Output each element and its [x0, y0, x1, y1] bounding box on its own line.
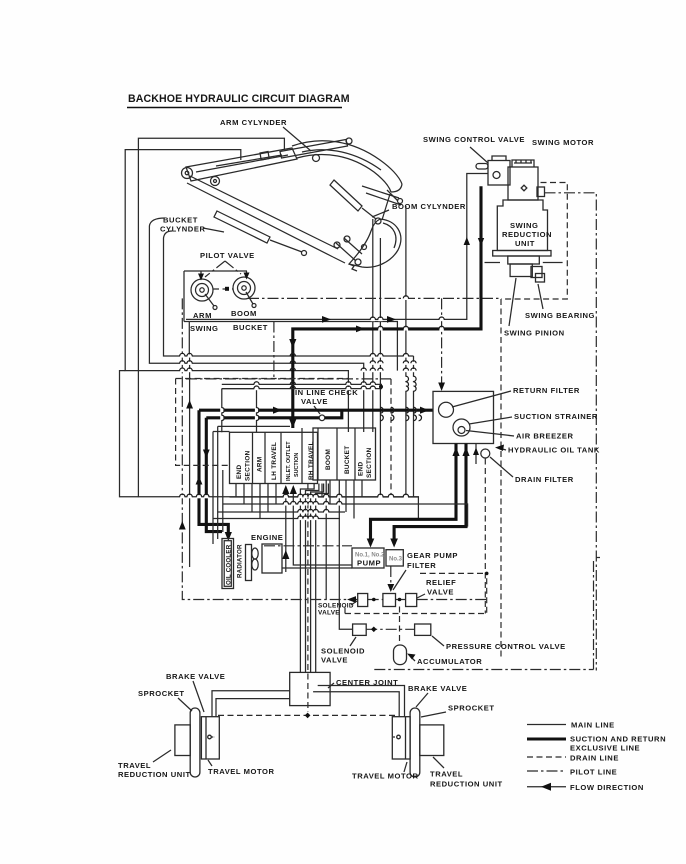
- label PRESSURE CONTROL VALVE: [432, 636, 566, 651]
- wire tank suction thick B: [390, 444, 469, 548]
- svg-text:TRAVEL MOTOR: TRAVEL MOTOR: [352, 772, 419, 781]
- swing reduction unit: [497, 200, 552, 251]
- crossover hops: [180, 296, 445, 520]
- svg-text:SUCTION: SUCTION: [294, 453, 300, 477]
- pump no3: [386, 550, 403, 566]
- svg-text:VALVE: VALVE: [301, 397, 328, 406]
- wire drops to valve top: [222, 389, 257, 433]
- label ARM CYLYNDER: [220, 118, 311, 151]
- oil cooler: [222, 539, 234, 589]
- svg-text:TRAVEL: TRAVEL: [118, 761, 151, 770]
- svg-text:VALVE: VALVE: [321, 656, 348, 665]
- svg-text:SUCTION AND RETURN: SUCTION AND RETURN: [570, 735, 666, 744]
- wire pilot row dashdot: [186, 378, 391, 380]
- wire tank small stub: [473, 444, 479, 465]
- svg-text:SPROCKET: SPROCKET: [138, 689, 185, 698]
- wire row above valve: [222, 388, 382, 390]
- wire vertical right of valve: [406, 206, 414, 497]
- svg-text:OIL COOLER: OIL COOLER: [226, 544, 233, 585]
- legend drain line: [527, 754, 619, 763]
- wire thick return to tank: [199, 407, 433, 414]
- solenoid valve 1: [358, 594, 368, 607]
- wire row2 pilot: [366, 626, 414, 632]
- svg-text:SWING: SWING: [510, 221, 538, 230]
- svg-text:BUCKET: BUCKET: [233, 323, 268, 332]
- svg-text:VALVE: VALVE: [427, 588, 454, 597]
- svg-text:DRAIN FILTER: DRAIN FILTER: [515, 475, 574, 484]
- label DRAIN FILTER: [490, 457, 574, 484]
- label BRAKE VALVE left: [166, 672, 225, 712]
- wire dashed mid box: [176, 379, 348, 466]
- label TRAVEL MOTOR right: [352, 762, 419, 781]
- svg-text:SWING: SWING: [190, 324, 218, 333]
- wire swing frame box: [189, 322, 397, 371]
- label SWING PINION: [504, 278, 565, 338]
- wire center joint to left motor: [212, 691, 290, 717]
- label BUCKET CYLYNDER: [160, 216, 224, 234]
- svg-text:ACCUMULATOR: ACCUMULATOR: [417, 657, 482, 666]
- title: [127, 93, 350, 108]
- label RELIEF VALVE: [417, 578, 456, 598]
- pressure control valve: [415, 624, 431, 635]
- svg-text:FILTER: FILTER: [407, 561, 436, 570]
- svg-text:INLET. OUTLET: INLET. OUTLET: [286, 441, 292, 481]
- svg-text:END: END: [236, 465, 243, 479]
- svg-text:SOLENOID: SOLENOID: [318, 603, 354, 610]
- wire pilot dashdot to swing: [248, 298, 501, 387]
- wire solenoid feeders: [326, 480, 352, 629]
- relief valve square: [406, 594, 417, 607]
- svg-text:BOOM CYLYNDER: BOOM CYLYNDER: [392, 202, 466, 211]
- engine fan: [252, 548, 258, 570]
- svg-text:ARM CYLYNDER: ARM CYLYNDER: [220, 118, 287, 127]
- svg-text:HYDRAULIC OIL TANK: HYDRAULIC OIL TANK: [508, 446, 600, 455]
- wire bucket cylinder line 1: [149, 218, 363, 432]
- wire row D: [222, 383, 382, 385]
- label TRAVEL REDUCTION UNIT right: [430, 757, 503, 789]
- node arrow into tank top: [438, 383, 445, 392]
- svg-text:BOOM: BOOM: [231, 309, 257, 318]
- wire drain dashed box: [345, 572, 489, 614]
- wire left risers: [213, 426, 223, 544]
- swing dashed enclosure: [501, 183, 567, 300]
- wire swing main thick: [293, 186, 481, 428]
- filter square: [383, 594, 396, 607]
- wire mid vertical with arrow: [186, 356, 193, 567]
- label SOLENOID VALVE 2: [321, 637, 365, 665]
- wire swing main thin: [186, 174, 488, 320]
- svg-text:FLOW DIRECTION: FLOW DIRECTION: [570, 783, 644, 792]
- label SPROCKET right: [421, 704, 495, 718]
- travel unit left: [175, 708, 219, 777]
- svg-text:PILOT LINE: PILOT LINE: [570, 768, 617, 777]
- label SPROCKET left: [138, 689, 192, 711]
- radiator: [237, 544, 252, 581]
- wire rows below valve: [213, 497, 468, 527]
- wire pilot left vertical: [179, 298, 358, 599]
- legend flow direction: [527, 783, 644, 792]
- label RETURN FILTER: [452, 386, 580, 407]
- svg-text:SPROCKET: SPROCKET: [448, 704, 495, 713]
- label ACCUMULATOR: [407, 654, 482, 667]
- solenoid valve 2: [353, 624, 367, 635]
- svg-text:SWING CONTROL VALVE: SWING CONTROL VALVE: [423, 135, 525, 144]
- wire rows at valve top left: [213, 426, 290, 431]
- label SOLENOID VALVE 1: [318, 601, 357, 617]
- wire arm cylinder line 2: [125, 150, 348, 432]
- wire solenoid row pilot: [347, 596, 487, 603]
- wire pilot supply: [184, 271, 247, 322]
- swing motor: [508, 160, 545, 200]
- svg-text:REDUCTION UNIT: REDUCTION UNIT: [118, 770, 191, 779]
- engine: [251, 533, 352, 573]
- label SWING BEARING: [525, 284, 595, 320]
- node junction dot: [379, 385, 383, 389]
- wire pilot bottom return: [374, 558, 600, 670]
- travel unit right: [392, 708, 444, 777]
- label SUCTION STRAINER: [469, 412, 598, 424]
- svg-text:SWING MOTOR: SWING MOTOR: [532, 138, 594, 147]
- wire drain dashed right vertical: [500, 299, 502, 660]
- label SWING CONTROL VALVE: [423, 135, 525, 163]
- label AIR BREEZER: [466, 431, 574, 441]
- wire valve bottom stubs: [236, 480, 362, 519]
- accumulator: [394, 607, 407, 665]
- label TRAVEL MOTOR left: [208, 760, 275, 776]
- wire swing pilot dashdot right: [545, 193, 597, 671]
- center joint: [290, 672, 399, 705]
- label TRAVEL REDUCTION UNIT left: [118, 750, 191, 779]
- svg-text:ARM: ARM: [193, 311, 212, 320]
- wire thick down to oil cooler B: [206, 418, 222, 532]
- svg-text:RH TRAVEL: RH TRAVEL: [308, 441, 315, 480]
- legend pilot line: [527, 768, 617, 777]
- svg-text:PILOT VALVE: PILOT VALVE: [200, 251, 255, 260]
- wire center drain dashed: [307, 484, 309, 713]
- swing control valve: [476, 156, 510, 185]
- backhoe arm artwork: [182, 138, 403, 271]
- legend suction line: [527, 735, 666, 753]
- svg-text:MAIN LINE: MAIN LINE: [571, 721, 615, 730]
- svg-text:TRAVEL MOTOR: TRAVEL MOTOR: [208, 767, 275, 776]
- svg-text:SECTION: SECTION: [366, 447, 373, 478]
- pump no1 no2: [352, 548, 385, 568]
- wire drain dashed below tank: [484, 459, 486, 614]
- label GEAR PUMP FILTER: [393, 551, 458, 590]
- wire pump drain dashdot: [387, 566, 394, 592]
- wire thick down to oil cooler A: [199, 410, 228, 537]
- label IN LINE CHECK VALVE: [295, 388, 358, 414]
- node arrows on thick swing vertical: [289, 339, 296, 428]
- wire left outer return: [120, 371, 139, 497]
- svg-text:BOOM: BOOM: [325, 449, 332, 470]
- label HYDRAULIC OIL TANK: [495, 445, 600, 455]
- wire pilot link dashed: [213, 287, 233, 291]
- wire tank suction thick A: [367, 444, 460, 548]
- wire arm cylinder line 1: [138, 138, 418, 520]
- svg-text:END: END: [358, 462, 365, 476]
- wire dashed drop: [390, 379, 392, 497]
- svg-text:No.3: No.3: [389, 557, 403, 563]
- svg-text:SWING BEARING: SWING BEARING: [525, 311, 595, 320]
- svg-text:SUCTION STRAINER: SUCTION STRAINER: [514, 412, 598, 421]
- node arrows cooler branch: [196, 450, 232, 542]
- svg-text:DRAIN LINE: DRAIN LINE: [570, 754, 619, 763]
- svg-text:BRAKE VALVE: BRAKE VALVE: [408, 684, 467, 693]
- svg-text:RADIATOR: RADIATOR: [237, 544, 244, 578]
- svg-text:REDUCTION UNIT: REDUCTION UNIT: [430, 780, 503, 789]
- svg-text:LH TRAVEL: LH TRAVEL: [271, 442, 278, 480]
- svg-text:VALVE: VALVE: [318, 610, 340, 617]
- svg-text:EXCLUSIVE LINE: EXCLUSIVE LINE: [570, 744, 640, 753]
- label BOOM CYLYNDER: [372, 202, 466, 217]
- wire center bundle: [300, 484, 328, 673]
- svg-text:BUCKET: BUCKET: [163, 216, 198, 225]
- wire suction arrows into valve: [282, 485, 352, 572]
- svg-text:BRAKE VALVE: BRAKE VALVE: [166, 672, 225, 681]
- hydraulic oil tank: [433, 391, 494, 458]
- pilot valve label: [200, 251, 255, 277]
- wire center joint to right motor: [313, 686, 404, 717]
- svg-text:PRESSURE CONTROL VALVE: PRESSURE CONTROL VALVE: [446, 642, 566, 651]
- label BRAKE VALVE right: [408, 684, 467, 707]
- swing base flange: [485, 251, 563, 283]
- svg-text:BACKHOE HYDRAULIC CIRCUIT DIAG: BACKHOE HYDRAULIC CIRCUIT DIAGRAM: [128, 93, 350, 105]
- svg-text:RETURN FILTER: RETURN FILTER: [513, 386, 580, 395]
- legend main line: [527, 721, 615, 730]
- svg-text:AIR BREEZER: AIR BREEZER: [516, 432, 574, 441]
- pilot valve right: [233, 277, 256, 308]
- svg-text:REDUCTION: REDUCTION: [502, 230, 552, 239]
- svg-text:ARM: ARM: [257, 457, 264, 472]
- svg-text:SOLENOID: SOLENOID: [321, 647, 365, 656]
- svg-text:SWING PINION: SWING PINION: [504, 329, 565, 338]
- wire boom cylinder line 1: [372, 219, 374, 432]
- svg-text:GEAR PUMP: GEAR PUMP: [407, 551, 458, 560]
- wire boom cylinder line 2: [379, 238, 381, 497]
- control valve block: [230, 428, 376, 484]
- svg-text:ENGINE: ENGINE: [251, 533, 283, 542]
- wire pilot drop dashdot: [273, 322, 275, 379]
- wire bucket cylinder line 2: [164, 231, 414, 356]
- svg-text:UNIT: UNIT: [515, 239, 535, 248]
- check valve circle: [319, 415, 325, 421]
- wire travel drain dashed: [218, 713, 398, 719]
- svg-text:BUCKET: BUCKET: [344, 446, 351, 474]
- svg-text:PUMP: PUMP: [357, 559, 381, 568]
- svg-text:SECTION: SECTION: [245, 450, 252, 481]
- svg-text:TRAVEL: TRAVEL: [430, 770, 463, 779]
- wire thick check line: [206, 416, 319, 419]
- svg-text:RELIEF: RELIEF: [426, 578, 456, 587]
- pilot valve left: [191, 279, 217, 310]
- node arrows swing pair: [198, 237, 484, 332]
